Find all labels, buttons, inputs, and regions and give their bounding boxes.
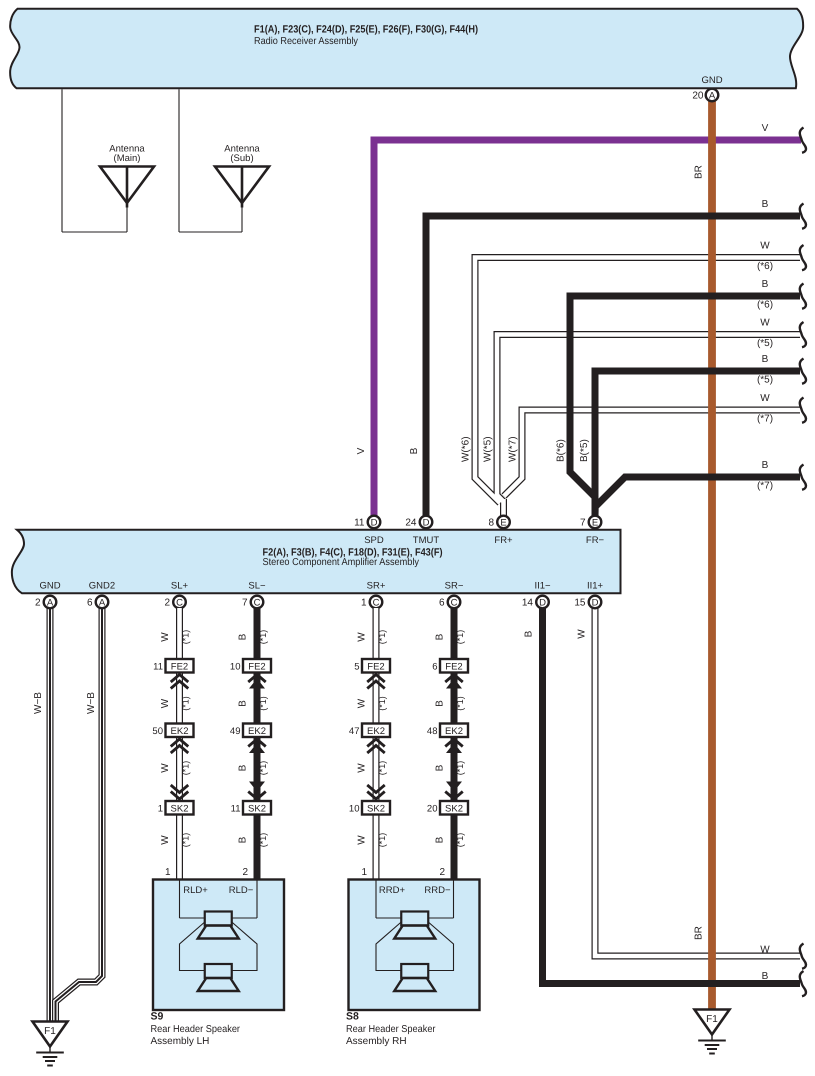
svg-text:SL−: SL− bbox=[248, 581, 266, 592]
svg-text:W: W bbox=[357, 835, 368, 845]
svg-text:10: 10 bbox=[230, 661, 241, 672]
svg-text:(*1): (*1) bbox=[455, 630, 465, 645]
svg-text:10: 10 bbox=[349, 803, 360, 814]
svg-text:BR: BR bbox=[694, 926, 705, 940]
svg-text:6: 6 bbox=[432, 661, 437, 672]
svg-text:8: 8 bbox=[488, 518, 494, 529]
svg-text:V: V bbox=[762, 123, 769, 134]
svg-text:W: W bbox=[760, 241, 770, 252]
svg-text:(*1): (*1) bbox=[181, 761, 191, 776]
svg-text:SK2: SK2 bbox=[171, 803, 189, 814]
svg-text:W−B: W−B bbox=[33, 692, 44, 714]
svg-text:(*1): (*1) bbox=[181, 833, 191, 848]
svg-text:W: W bbox=[160, 835, 171, 845]
svg-text:(*7): (*7) bbox=[757, 481, 773, 492]
svg-text:B: B bbox=[435, 764, 446, 771]
svg-text:24: 24 bbox=[405, 518, 417, 529]
svg-text:(*6): (*6) bbox=[757, 300, 773, 311]
svg-text:W: W bbox=[760, 318, 770, 329]
svg-text:A: A bbox=[47, 597, 54, 608]
svg-text:7: 7 bbox=[580, 518, 586, 529]
svg-text:V: V bbox=[356, 447, 367, 454]
svg-text:RLD+: RLD+ bbox=[183, 885, 208, 896]
svg-text:RRD−: RRD− bbox=[424, 885, 451, 896]
svg-text:B: B bbox=[238, 764, 249, 771]
svg-text:Stereo Component Amplifier Ass: Stereo Component Amplifier Assembly bbox=[263, 557, 420, 568]
svg-text:(*1): (*1) bbox=[455, 833, 465, 848]
svg-text:Radio Receiver Assembly: Radio Receiver Assembly bbox=[254, 36, 358, 47]
svg-text:B: B bbox=[238, 633, 249, 640]
svg-text:(*5): (*5) bbox=[757, 375, 773, 386]
svg-text:(*1): (*1) bbox=[455, 761, 465, 776]
svg-text:(*1): (*1) bbox=[258, 630, 268, 645]
svg-text:B: B bbox=[762, 354, 769, 365]
svg-text:Rear Header Speaker: Rear Header Speaker bbox=[151, 1024, 241, 1035]
svg-text:(*1): (*1) bbox=[258, 696, 268, 711]
svg-text:1: 1 bbox=[361, 867, 367, 878]
svg-text:B: B bbox=[435, 836, 446, 843]
svg-text:7: 7 bbox=[242, 598, 248, 609]
svg-text:F1(A), F23(C), F24(D), F25(E),: F1(A), F23(C), F24(D), F25(E), F26(F), F… bbox=[254, 24, 478, 36]
svg-text:47: 47 bbox=[349, 726, 360, 737]
svg-text:C: C bbox=[176, 597, 183, 608]
svg-text:(*7): (*7) bbox=[757, 414, 773, 425]
svg-text:6: 6 bbox=[439, 598, 445, 609]
svg-text:B: B bbox=[238, 836, 249, 843]
svg-text:FE2: FE2 bbox=[248, 661, 265, 672]
svg-text:FR−: FR− bbox=[586, 535, 605, 546]
svg-text:(*1): (*1) bbox=[181, 630, 191, 645]
svg-text:A: A bbox=[99, 597, 106, 608]
svg-text:(*5): (*5) bbox=[757, 338, 773, 349]
svg-text:C: C bbox=[373, 597, 380, 608]
svg-text:6: 6 bbox=[87, 598, 93, 609]
svg-text:50: 50 bbox=[152, 726, 163, 737]
svg-text:20: 20 bbox=[692, 91, 704, 102]
svg-text:RRD+: RRD+ bbox=[379, 885, 406, 896]
svg-text:5: 5 bbox=[354, 661, 359, 672]
svg-text:W: W bbox=[760, 945, 770, 956]
svg-text:F1: F1 bbox=[44, 1026, 56, 1037]
svg-text:(Main): (Main) bbox=[114, 153, 141, 164]
svg-text:B: B bbox=[238, 700, 249, 707]
svg-text:W(*7): W(*7) bbox=[508, 436, 519, 462]
svg-text:B(*5): B(*5) bbox=[579, 439, 590, 462]
svg-text:B: B bbox=[762, 199, 769, 210]
svg-text:W: W bbox=[760, 393, 770, 404]
svg-text:B: B bbox=[762, 460, 769, 471]
svg-text:D: D bbox=[539, 597, 546, 608]
svg-text:Assembly RH: Assembly RH bbox=[346, 1036, 407, 1047]
svg-text:W: W bbox=[357, 632, 368, 642]
svg-text:W: W bbox=[357, 698, 368, 708]
svg-text:SR+: SR+ bbox=[367, 581, 386, 592]
svg-text:EK2: EK2 bbox=[248, 726, 266, 737]
svg-text:B: B bbox=[409, 447, 420, 454]
svg-text:S9: S9 bbox=[151, 1011, 164, 1023]
svg-text:D: D bbox=[423, 517, 430, 528]
svg-text:W: W bbox=[357, 763, 368, 773]
svg-text:EK2: EK2 bbox=[171, 726, 189, 737]
svg-text:E: E bbox=[592, 517, 598, 528]
svg-text:SK2: SK2 bbox=[367, 803, 385, 814]
svg-text:11: 11 bbox=[231, 803, 241, 814]
svg-text:FR+: FR+ bbox=[494, 535, 513, 546]
svg-text:TMUT: TMUT bbox=[413, 535, 440, 546]
svg-text:RLD−: RLD− bbox=[229, 885, 254, 896]
svg-text:FE2: FE2 bbox=[367, 661, 384, 672]
svg-text:W−B: W−B bbox=[86, 692, 97, 714]
svg-text:W(*5): W(*5) bbox=[483, 436, 494, 462]
svg-text:2: 2 bbox=[439, 867, 445, 878]
svg-text:(*1): (*1) bbox=[455, 696, 465, 711]
svg-text:11: 11 bbox=[354, 518, 365, 529]
svg-text:SK2: SK2 bbox=[248, 803, 266, 814]
svg-text:II1−: II1− bbox=[534, 581, 551, 592]
svg-text:SL+: SL+ bbox=[171, 581, 189, 592]
svg-text:Rear Header Speaker: Rear Header Speaker bbox=[346, 1024, 436, 1035]
svg-text:2: 2 bbox=[35, 598, 41, 609]
svg-text:W: W bbox=[160, 632, 171, 642]
svg-text:GND2: GND2 bbox=[89, 581, 115, 592]
svg-text:2: 2 bbox=[242, 867, 248, 878]
svg-text:1: 1 bbox=[158, 803, 163, 814]
svg-text:(*1): (*1) bbox=[377, 696, 387, 711]
svg-text:EK2: EK2 bbox=[367, 726, 385, 737]
svg-text:W: W bbox=[160, 763, 171, 773]
svg-text:D: D bbox=[592, 597, 599, 608]
svg-text:GND: GND bbox=[701, 75, 722, 86]
svg-text:11: 11 bbox=[153, 661, 163, 672]
svg-text:1: 1 bbox=[361, 598, 367, 609]
svg-text:49: 49 bbox=[230, 726, 241, 737]
svg-text:FE2: FE2 bbox=[445, 661, 462, 672]
svg-text:B: B bbox=[762, 279, 769, 290]
svg-text:B(*6): B(*6) bbox=[556, 439, 567, 462]
svg-text:(*1): (*1) bbox=[258, 761, 268, 776]
svg-text:II1+: II1+ bbox=[587, 581, 604, 592]
svg-text:E: E bbox=[500, 517, 506, 528]
svg-text:(*1): (*1) bbox=[377, 630, 387, 645]
svg-text:20: 20 bbox=[427, 803, 438, 814]
svg-text:(*1): (*1) bbox=[377, 833, 387, 848]
svg-text:(*1): (*1) bbox=[258, 833, 268, 848]
svg-text:15: 15 bbox=[574, 598, 586, 609]
svg-text:EK2: EK2 bbox=[445, 726, 463, 737]
svg-text:W: W bbox=[577, 629, 588, 639]
svg-text:C: C bbox=[254, 597, 261, 608]
svg-text:D: D bbox=[371, 517, 378, 528]
svg-text:W(*6): W(*6) bbox=[461, 436, 472, 462]
svg-text:(Sub): (Sub) bbox=[230, 153, 253, 164]
svg-text:1: 1 bbox=[165, 867, 171, 878]
svg-text:W: W bbox=[160, 698, 171, 708]
svg-text:B: B bbox=[435, 700, 446, 707]
svg-text:B: B bbox=[435, 633, 446, 640]
svg-text:F1: F1 bbox=[706, 1014, 718, 1025]
svg-text:BR: BR bbox=[694, 165, 705, 179]
svg-text:Assembly LH: Assembly LH bbox=[151, 1036, 210, 1047]
svg-text:FE2: FE2 bbox=[171, 661, 188, 672]
svg-text:B: B bbox=[762, 971, 769, 982]
svg-text:SK2: SK2 bbox=[445, 803, 463, 814]
svg-text:2: 2 bbox=[164, 598, 170, 609]
svg-text:S8: S8 bbox=[346, 1011, 359, 1023]
svg-text:SPD: SPD bbox=[364, 535, 384, 546]
svg-text:B: B bbox=[524, 630, 535, 637]
svg-text:C: C bbox=[451, 597, 458, 608]
svg-text:GND: GND bbox=[39, 581, 60, 592]
svg-text:14: 14 bbox=[522, 598, 534, 609]
svg-text:(*1): (*1) bbox=[181, 696, 191, 711]
svg-text:SR−: SR− bbox=[445, 581, 464, 592]
svg-text:(*1): (*1) bbox=[377, 761, 387, 776]
svg-text:A: A bbox=[709, 90, 716, 101]
svg-text:(*6): (*6) bbox=[757, 261, 773, 272]
svg-text:48: 48 bbox=[427, 726, 438, 737]
